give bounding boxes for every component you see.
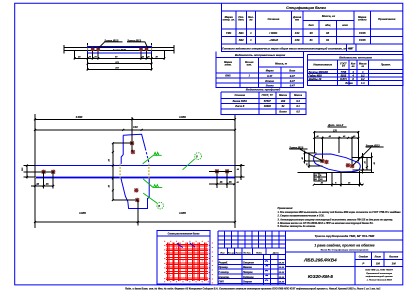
svg-text:Провер.: Провер.: [219, 266, 229, 269]
svg-text:стали: стали: [358, 19, 367, 22]
svg-text:Подп. и дата Взам. инв. №: Подп. и дата Взам. инв. № Инв. № подл. Ф…: [125, 287, 381, 290]
svg-text:210: 210: [114, 68, 119, 70]
revision grid rows: [218, 236, 286, 283]
svg-text:Шайбы 20: Шайбы 20: [309, 77, 322, 81]
svg-text:Болты М20х60: Болты М20х60: [309, 70, 329, 74]
svg-text:1М: 1М: [376, 262, 381, 266]
svg-text:0.2: 0.2: [361, 73, 365, 77]
svg-text:С345: С345: [359, 38, 366, 42]
gusset holes: [130, 141, 134, 145]
blue marks in scheme: [177, 243, 195, 248]
svg-text:Схема расположения балки: Схема расположения балки: [168, 233, 200, 236]
svg-text:0.47: 0.47: [290, 84, 296, 88]
weld flag A: [143, 152, 162, 163]
beam bottom flange (thick blue): [35, 177, 235, 179]
svg-text:Г.контр.: Г.контр.: [219, 271, 230, 274]
svg-text:Трасса трубопровода ТМК, МГ ЮЗ: Трасса трубопровода ТМК, МГ ЮЗ-ТМК: [315, 234, 376, 238]
title block outline: [218, 231, 403, 285]
svg-text:г. Новый Уренгой 2023: г. Новый Уренгой 2023: [367, 279, 393, 282]
right support dims: [209, 171, 234, 188]
svg-text:Дет. поз.2: Дет. поз.2: [327, 123, 344, 127]
detail left dims: [305, 151, 323, 168]
svg-text:Лист 8: Лист 8: [234, 104, 245, 108]
svg-text:Гайки М20: Гайки М20: [309, 73, 323, 77]
beam end axis right: [234, 114, 236, 228]
svg-text:−200х8: −200х8: [269, 38, 279, 42]
svg-text:200: 200: [280, 99, 286, 103]
detail top dim 2: [314, 137, 358, 139]
svg-text:Всех: Всех: [289, 68, 296, 72]
svg-text:Подп.: Подп.: [256, 251, 263, 254]
svg-text:7798: 7798: [341, 70, 347, 74]
svg-text:Иванов: Иванов: [243, 266, 253, 269]
svg-text:1. Все отверстия Ø23 выполнять: 1. Все отверстия Ø23 выполнять по месту …: [278, 211, 402, 214]
red dots: [164, 241, 213, 284]
svg-text:С345: С345: [359, 31, 366, 35]
svg-text:общ: общ: [325, 23, 331, 27]
svg-text:Ведомость метизов: Ведомость метизов: [339, 55, 372, 59]
svg-text:Дата: Дата: [272, 252, 280, 254]
location scheme box: [157, 231, 210, 284]
svg-text:152: 152: [295, 31, 300, 35]
svg-text:Масса, т: Масса, т: [275, 62, 288, 66]
gusset above beam left edge: [121, 135, 123, 164]
svg-text:12.23: 12.23: [279, 272, 285, 274]
svg-text:дет.: дет.: [238, 18, 244, 22]
svg-text:Сечение: Сечение: [234, 93, 245, 97]
detail base line: [298, 171, 375, 173]
svg-text:Петров: Петров: [243, 271, 253, 274]
dim row 3: [88, 68, 152, 70]
left support holes: [41, 170, 45, 174]
weld leader with circle 1: [183, 159, 195, 170]
gusset hidden edge (dashed): [145, 148, 149, 164]
detail right dims: [352, 153, 371, 174]
detail plate outline: [314, 154, 361, 172]
top dim line 2: [35, 129, 235, 131]
svg-text:элем.: элем.: [225, 64, 232, 67]
detail top dim 1: [314, 131, 358, 133]
svg-text:Р: Р: [362, 262, 364, 266]
svg-text:0.47: 0.47: [290, 74, 296, 78]
svg-text:отпр. эл.: отпр. эл.: [222, 19, 235, 22]
svg-text:Согласно ведомости отправочных: Согласно ведомости отправочных марок общ…: [222, 46, 353, 50]
svg-text:БМ1: БМ1: [225, 74, 231, 78]
svg-text:1.4: 1.4: [361, 81, 365, 85]
svg-text:Итого: Итого: [265, 79, 274, 83]
svg-text:ГОСТ, ТУ: ГОСТ, ТУ: [262, 93, 274, 97]
svg-text:I 30Б1: I 30Б1: [269, 31, 278, 35]
svg-text:0.47: 0.47: [290, 79, 296, 83]
svg-text:Озеров: Озеров: [243, 281, 252, 284]
svg-text:мм: мм: [295, 19, 299, 22]
svg-text:45: 45: [45, 183, 49, 186]
svg-text:93: 93: [310, 31, 314, 35]
svg-text:шт.: шт.: [247, 64, 252, 67]
svg-text:Ведомость профилей: Ведомость профилей: [246, 88, 281, 92]
signatures (blue marks): [265, 261, 268, 281]
svg-text:Масса: Масса: [279, 93, 287, 97]
header row columns: [227, 248, 278, 285]
beam end ticks: [64, 45, 174, 53]
detail bottom dim: [314, 171, 363, 186]
svg-text:1480: 1480: [179, 115, 186, 119]
hole H1: [91, 47, 95, 51]
svg-text:Ведомость отправочных марок: Ведомость отправочных марок: [235, 53, 286, 57]
svg-text:Всего: Всего: [279, 109, 287, 113]
svg-text:0.2: 0.2: [361, 77, 365, 81]
detail extension verticals: [314, 131, 358, 164]
svg-text:19903: 19903: [264, 104, 272, 108]
svg-text:Наименование: Наименование: [313, 63, 332, 67]
svg-text:Изм: Изм: [220, 252, 225, 254]
svg-text:Балка 30Б1: Балка 30Б1: [233, 99, 248, 103]
svg-text:5915: 5915: [341, 73, 347, 77]
svg-text:Б1: Б1: [315, 179, 318, 181]
svg-text:нефтегазстрой проект: нефтегазстрой проект: [366, 275, 393, 278]
svg-text:Примечание: Примечание: [378, 17, 396, 21]
svg-text:12.23: 12.23: [279, 267, 285, 269]
svg-text:1 рама свайная, пролет на обвя: 1 рама свайная, пролет на обвязке: [314, 243, 374, 247]
hole H4: [145, 47, 149, 51]
svg-text:Масса, кг: Масса, кг: [322, 14, 336, 18]
svg-text:Стадия: Стадия: [359, 256, 369, 259]
svg-text:3. Антикоррозионную защиту кон: 3. Антикоррозионную защиту конструкций в…: [278, 218, 394, 221]
svg-text:6 отв.М20: 6 отв.М20: [113, 49, 127, 52]
svg-text:№ док.: № док.: [243, 251, 251, 254]
dim row 2: [88, 63, 152, 65]
svg-text:12.23: 12.23: [279, 282, 285, 284]
svg-text:ООО ПКФ им. НПО «ЮЗТ»: ООО ПКФ им. НПО «ЮЗТ»: [365, 269, 394, 272]
red grid horizontals: [166, 245, 208, 280]
hole H3: [139, 47, 143, 51]
beam end axis left: [34, 114, 36, 228]
svg-text:12.23: 12.23: [279, 277, 285, 279]
svg-text:0.47: 0.47: [267, 74, 273, 78]
weld materials table: [221, 92, 306, 114]
hardware table: [308, 54, 403, 85]
svg-text:ТУ: ТУ: [342, 65, 345, 68]
svg-text:Сечение: Сечение: [267, 17, 279, 21]
svg-text:11371: 11371: [340, 77, 347, 81]
svg-text:Примеч.: Примеч.: [381, 64, 391, 67]
svg-text:всех: всех: [342, 24, 348, 27]
svg-text:Лист: Лист: [234, 252, 241, 254]
yellow dash at beam left end: [34, 177, 36, 179]
top dim line 1: [35, 118, 235, 120]
svg-text:Всего: Всего: [345, 81, 353, 85]
shipping marks table: [216, 51, 304, 87]
svg-text:Балка Б1. Спецификация металло: Балка Б1. Спецификация металлопроката: [321, 248, 370, 251]
svg-text:ЛБВ.295.ФХВ4: ЛБВ.295.ФХВ4: [303, 258, 337, 263]
svg-text:Разраб.: Разраб.: [219, 261, 229, 264]
svg-text:Б02: Б02: [239, 38, 244, 42]
svg-text:Марки: Марки: [266, 68, 274, 72]
svg-text:Листов: Листов: [388, 257, 399, 259]
left support dims: [24, 165, 55, 179]
weld flag B: [143, 179, 162, 188]
right support holes: [215, 169, 219, 173]
gusset plate outline: [123, 134, 145, 148]
svg-text:0.4: 0.4: [296, 99, 300, 103]
svg-text:Масса: Масса: [294, 93, 302, 97]
svg-text:1485: 1485: [179, 211, 186, 215]
svg-text:0.5: 0.5: [296, 109, 300, 113]
detail holes: [320, 159, 324, 163]
svg-text:45: 45: [35, 183, 39, 186]
extension lines below: [75, 43, 165, 70]
svg-text:Смирнов: Смирнов: [243, 261, 255, 264]
yellow dashed gusset edges through beam: [119, 164, 121, 179]
svg-text:ТМ1: ТМ1: [226, 31, 232, 35]
svg-text:ГИП: ГИП: [219, 281, 224, 284]
svg-text:Н.контр.: Н.контр.: [219, 276, 230, 279]
beam top edge (blue): [35, 165, 235, 167]
svg-text:2. Сварка полуавтоматическая в: 2. Сварка полуавтоматическая в СО2.: [277, 215, 325, 218]
svg-text:дет: дет: [308, 23, 314, 27]
svg-text:Спецификация балки: Спецификация балки: [286, 6, 326, 10]
svg-text:МГ: МГ: [349, 46, 353, 50]
red grid verticals: [167, 243, 206, 282]
svg-text:61: 61: [310, 38, 314, 42]
weld leader with circle 2: [143, 193, 157, 203]
bottom dim line: [35, 221, 235, 223]
svg-text:45: 45: [219, 181, 223, 184]
svg-text:1М: 1М: [392, 262, 397, 266]
svg-text:Кол.уч: Кол.уч: [228, 252, 235, 254]
svg-text:Сидоров: Сидоров: [243, 276, 254, 279]
svg-text:5. Болты затянуть до отказа.: 5. Болты затянуть до отказа.: [278, 225, 317, 228]
svg-text:во: во: [352, 65, 355, 68]
svg-text:45: 45: [228, 181, 232, 184]
specification table columns: [236, 11, 370, 52]
revision grid columns: [225, 231, 279, 248]
gusset below beam: [121, 179, 149, 209]
gusset hole dim verticals: [113, 117, 138, 226]
svg-text:во: во: [249, 19, 253, 22]
specification table frame: [221, 3, 402, 51]
dim row 1: [75, 57, 165, 59]
svg-text:Б01: Б01: [239, 31, 244, 35]
right part rows: [286, 240, 403, 285]
end plate outline (plan): [88, 47, 152, 54]
svg-text:Проектный институт: Проектный институт: [366, 272, 392, 275]
svg-text:1480: 1480: [76, 115, 83, 119]
svg-text:61: 61: [326, 38, 330, 42]
svg-text:93: 93: [326, 31, 330, 35]
svg-text:430: 430: [294, 38, 300, 42]
hole H2: [96, 47, 100, 51]
svg-text:140: 140: [133, 125, 138, 129]
svg-text:0.1: 0.1: [296, 104, 300, 108]
yellow dashes on plate edge: [88, 48, 152, 50]
svg-text:12.23: 12.23: [279, 262, 285, 264]
svg-text:1485: 1485: [79, 211, 86, 215]
svg-text:ЮЗ20-КМ-5: ЮЗ20-КМ-5: [308, 274, 334, 279]
svg-text:57837: 57837: [264, 99, 272, 103]
svg-text:Примечания:: Примечания:: [278, 207, 294, 210]
beam flange edge lines (plan): [64, 47, 174, 50]
detail small cells: [314, 173, 327, 181]
svg-text:Лист: Лист: [374, 257, 381, 259]
